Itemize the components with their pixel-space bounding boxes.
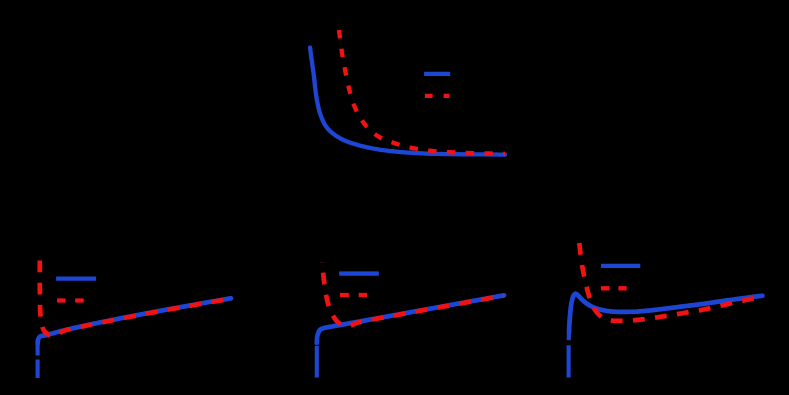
bottom-middle subplot: red dashed curve [322,262,504,326]
bottom-right legend: red dashed sample [601,286,627,290]
bottom-middle legend: red dashed sample [340,293,367,297]
bottom-middle subplot: blue solid rising curve [317,295,504,343]
bottom-left legend: blue solid sample [56,277,96,281]
bottom-right subplot: blue solid curve vertical segment (upper) [567,334,571,340]
bottom-right subplot: blue solid curve with peak and dip [569,294,762,333]
bottom-middle legend: blue solid sample [339,271,379,275]
top subplot legend: red dashed sample [425,94,450,98]
top subplot legend: blue solid sample [424,72,450,76]
bottom-right subplot: red dashed curve [579,243,757,321]
bottom-right subplot: blue solid curve vertical segment (lower) [567,345,571,377]
bottom-left subplot: blue solid curve vertical segment (upper) [36,343,40,356]
bottom-left subplot: blue solid curve vertical segment (lower) [36,360,40,379]
bottom-middle subplot: blue solid curve vertical segment (lower) [315,346,319,378]
bottom-left subplot: red dashed curve [40,261,231,336]
bottom-right legend: blue solid sample [601,264,640,268]
bottom-left legend: red dashed sample [57,298,84,302]
top subplot: blue solid decay curve [310,48,505,155]
bottom-left subplot: blue solid rising curve [38,298,231,344]
top subplot: red dashed decay curve [339,30,505,154]
